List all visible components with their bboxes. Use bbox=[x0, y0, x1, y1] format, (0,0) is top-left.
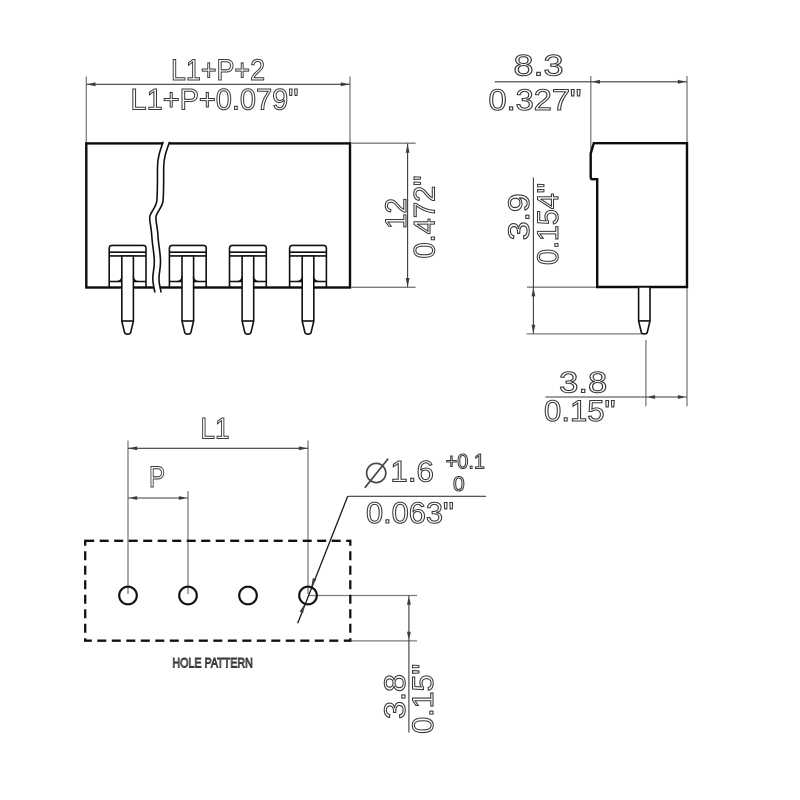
svg-text:+0.1: +0.1 bbox=[446, 451, 485, 474]
svg-text:L1+P+2: L1+P+2 bbox=[171, 54, 265, 87]
svg-text:1.6: 1.6 bbox=[390, 455, 434, 488]
svg-text:8.3: 8.3 bbox=[514, 50, 564, 83]
svg-text:0: 0 bbox=[453, 473, 465, 496]
svg-text:0.15": 0.15" bbox=[544, 395, 616, 428]
svg-text:0.063": 0.063" bbox=[366, 497, 454, 530]
svg-text:0.154": 0.154" bbox=[532, 183, 565, 265]
svg-text:0.15": 0.15" bbox=[407, 664, 440, 734]
svg-text:L1: L1 bbox=[201, 413, 230, 446]
svg-text:P: P bbox=[149, 461, 165, 494]
svg-text:HOLE PATTERN: HOLE PATTERN bbox=[172, 655, 252, 671]
svg-text:L1+P+0.079": L1+P+0.079" bbox=[131, 84, 299, 117]
svg-text:0.327": 0.327" bbox=[489, 84, 582, 117]
svg-text:0.472": 0.472" bbox=[408, 176, 441, 259]
